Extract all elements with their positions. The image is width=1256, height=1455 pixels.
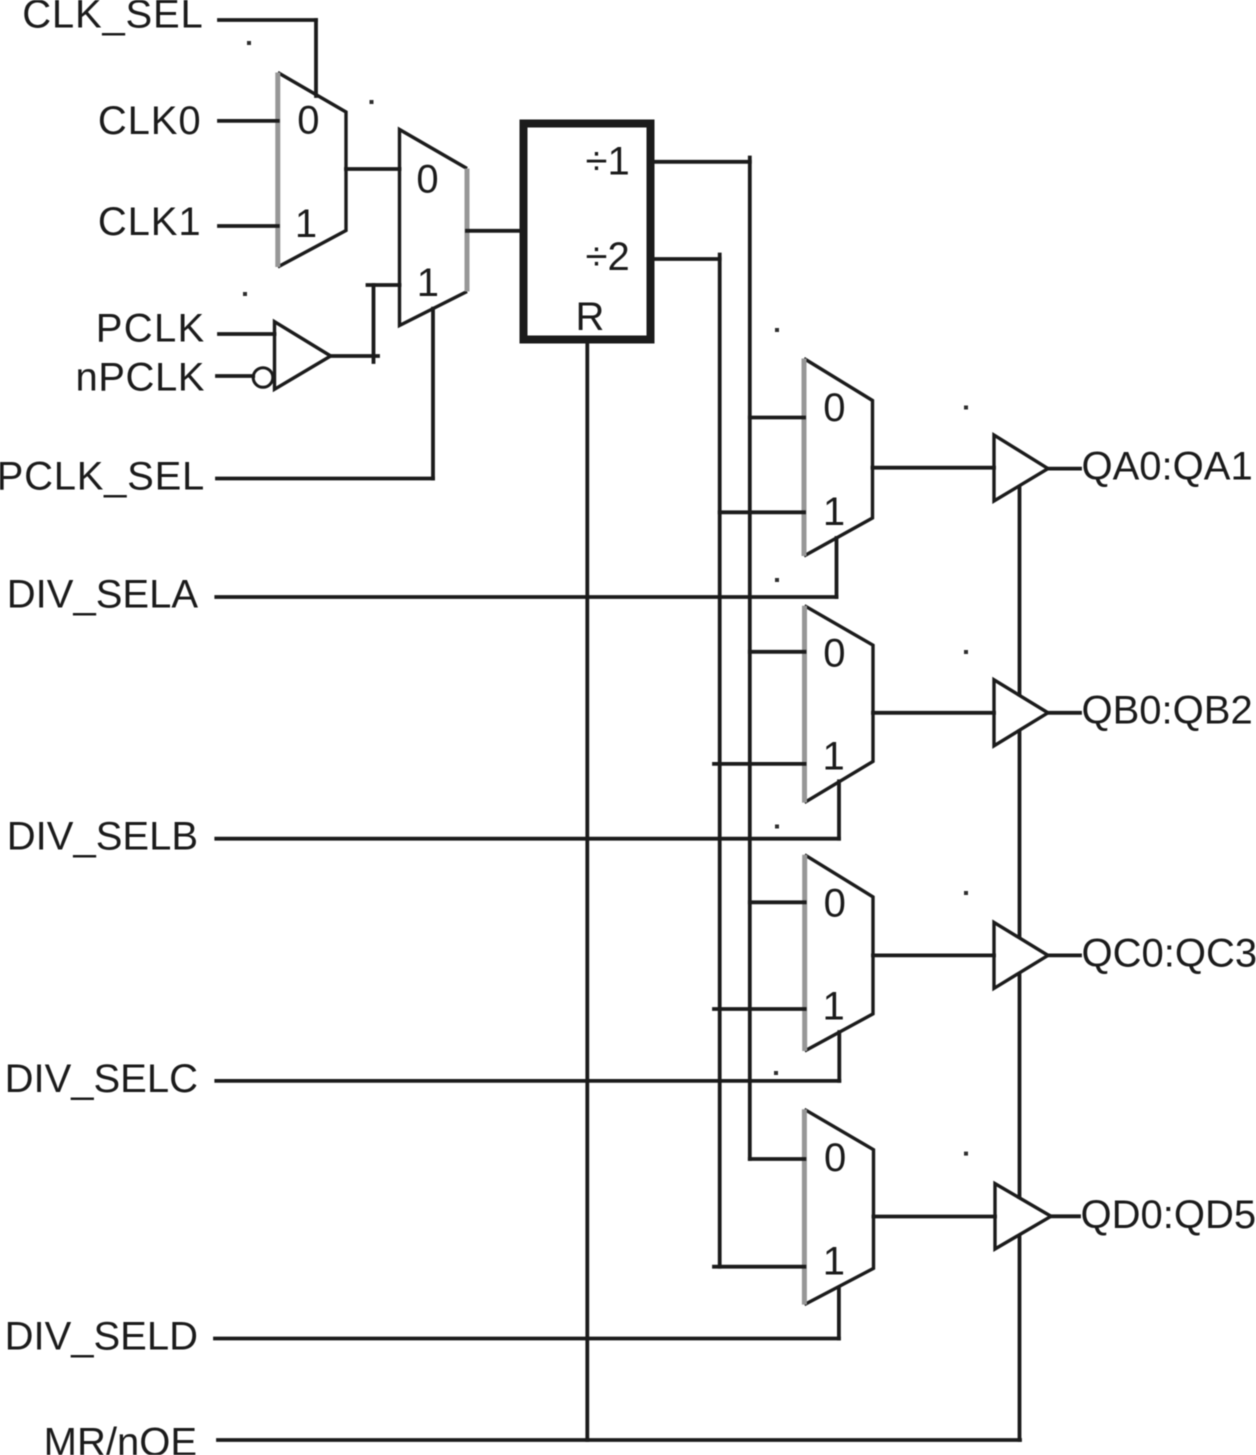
wire mux M2 output to divider input — [467, 229, 520, 233]
svg-text:1: 1 — [822, 985, 844, 1029]
wire ÷2 tap to mux MA input 1 — [720, 510, 804, 514]
wire mux M1 output to mux M2 input 0 — [346, 167, 400, 171]
wire PCLK_SEL to mux M2 select — [217, 477, 433, 481]
wire mux MD output to buffer D — [874, 1215, 996, 1219]
svg-text:÷1: ÷1 — [586, 140, 630, 184]
wire ÷2 bus end to mux MD input 1 — [714, 1265, 804, 1269]
svg-text:0: 0 — [297, 99, 319, 143]
svg-text:0: 0 — [823, 632, 845, 676]
svg-text:DIV_SELC: DIV_SELC — [5, 1057, 198, 1101]
svg-text:PCLK_SEL: PCLK_SEL — [0, 455, 205, 499]
svg-text:1: 1 — [417, 261, 439, 305]
svg-text:DIV_SELD: DIV_SELD — [5, 1315, 198, 1359]
wire mux MB output to buffer B — [873, 711, 994, 715]
svg-text:DIV_SELB: DIV_SELB — [7, 815, 198, 859]
svg-text:QB0:QB2: QB0:QB2 — [1082, 689, 1253, 733]
svg-text:÷2: ÷2 — [586, 235, 630, 279]
wire mux MA output to buffer A — [873, 466, 995, 470]
mux M1 (CLK0/CLK1 select) — [278, 73, 346, 268]
mux M2 (PCLK select) — [400, 130, 468, 326]
svg-text:0: 0 — [823, 386, 845, 430]
svg-text:1: 1 — [295, 202, 317, 246]
wire ÷2 tap to mux MC input 1 — [714, 1007, 805, 1011]
svg-text:CLK_SEL: CLK_SEL — [22, 0, 203, 37]
wire buffer C output — [1048, 954, 1080, 958]
mux MC (QC divider select) — [805, 855, 873, 1051]
svg-text:0: 0 — [416, 158, 438, 202]
svg-text:QD0:QD5: QD0:QD5 — [1081, 1193, 1256, 1237]
output buffer B — [994, 680, 1048, 746]
wire ÷1 bus vertical — [748, 158, 752, 1160]
output buffer C — [994, 922, 1048, 988]
inverting bubble on nPCLK input — [253, 368, 273, 388]
svg-text:1: 1 — [823, 1239, 845, 1283]
wire buffer output — [331, 354, 378, 358]
wire R (reset) vertical from divider to MR/nOE rail — [585, 344, 589, 1441]
wire DIV_SELA to mux MA select — [216, 595, 836, 599]
wire DIV_SELB to mux MB select — [216, 837, 839, 841]
output buffer A — [994, 435, 1048, 501]
wire PCLK input — [219, 332, 275, 336]
svg-text:0: 0 — [824, 882, 846, 926]
output buffer D — [995, 1184, 1051, 1249]
wire CLK_SEL to mux M1 select — [219, 18, 316, 22]
wire DIV_SELC to mux MC select — [216, 1079, 839, 1083]
wire ÷2 bus vertical — [718, 255, 722, 1267]
wire mux MC output to buffer C — [873, 954, 994, 958]
wire buffer D output — [1051, 1214, 1079, 1218]
svg-text:QC0:QC3: QC0:QC3 — [1082, 931, 1256, 975]
divider block U1 (÷1 ÷2 R) — [524, 124, 651, 340]
wire ÷1 tap to mux MB input 0 — [750, 650, 805, 654]
svg-text:CLK1: CLK1 — [98, 200, 202, 244]
wire ÷1 bus end to mux MD input 0 — [750, 1157, 805, 1161]
wire CLK0 input — [219, 119, 278, 123]
svg-text:1: 1 — [823, 490, 845, 534]
svg-text:DIV_SELA: DIV_SELA — [7, 573, 199, 617]
wire ÷1 tap to mux MA input 0 — [750, 416, 804, 420]
svg-text:CLK0: CLK0 — [98, 99, 202, 143]
wire ÷2 output — [654, 257, 720, 261]
wire buffer B output — [1048, 711, 1080, 715]
mux MD (QD divider select) — [804, 1109, 873, 1304]
wire CLK1 input — [219, 224, 278, 228]
mux MB (QB divider select) — [805, 606, 874, 803]
wire enable bus vertical (nOE to output buffers, drawn under triangles) — [1018, 487, 1022, 1441]
wire ÷2 tap to mux MB input 1 — [714, 762, 805, 766]
wire ÷1 tap to mux MC input 0 — [750, 900, 805, 904]
svg-text:nPCLK: nPCLK — [76, 356, 206, 400]
wire buffer A output — [1048, 467, 1080, 471]
input buffer (PCLK/nPCLK differential receiver) — [253, 322, 331, 390]
svg-text:R: R — [576, 295, 605, 339]
wire ÷1 output — [654, 160, 750, 164]
wire DIV_SELD to mux MD select — [215, 1337, 839, 1341]
svg-text:PCLK: PCLK — [96, 307, 206, 351]
svg-text:1: 1 — [822, 735, 844, 779]
svg-text:0: 0 — [824, 1136, 846, 1180]
svg-text:MR/nOE: MR/nOE — [44, 1421, 197, 1455]
wire nPCLK input — [217, 374, 253, 378]
wire MR/nOE bottom rail — [218, 1438, 1020, 1442]
svg-text:QA0:QA1: QA0:QA1 — [1082, 445, 1253, 489]
wire vertical feed to mux M2 input 1 — [372, 285, 376, 362]
mux MA (QA divider select) — [804, 359, 873, 557]
